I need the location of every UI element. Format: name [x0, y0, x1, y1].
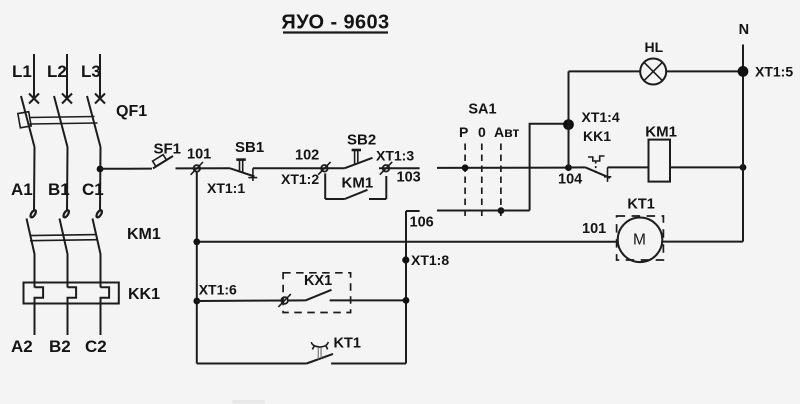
title ЯУО-9603: [281, 12, 389, 34]
svg-text:SB2: SB2: [347, 132, 376, 149]
svg-text:L2: L2: [47, 62, 67, 81]
pushbutton SB1 stop: [230, 160, 257, 181]
selector switch SA1 dashed poles: [465, 144, 501, 221]
svg-text:KM1: KM1: [342, 175, 374, 192]
svg-text:A1: A1: [11, 180, 33, 199]
contact KX1: [288, 290, 332, 301]
svg-text:HL: HL: [645, 39, 664, 55]
svg-text:KK1: KK1: [128, 286, 160, 303]
svg-text:L1: L1: [12, 62, 32, 81]
svg-text:XT1:5: XT1:5: [755, 64, 793, 80]
wire KX1 to 106: [330, 299, 406, 301]
wire XT1:6 row left: [197, 300, 285, 303]
contact KM1 auxiliary seal-in branch: [325, 173, 386, 199]
svg-text:XT1:8: XT1:8: [411, 252, 449, 268]
svg-text:KK1: KK1: [583, 128, 611, 144]
breaker QF1 fixed contact x L1: [29, 94, 39, 104]
node SF1 tap on phase C: [97, 166, 104, 173]
pushbutton SB2 start: [345, 150, 373, 168]
svg-text:SF1: SF1: [154, 141, 182, 158]
wire XT1:4 riser to lamp corner: [568, 71, 570, 167]
faint watermark smudge: [232, 400, 265, 404]
wire 106 SA1 row: [437, 210, 530, 212]
node coil to N junction: [740, 164, 747, 171]
wire phase A KM1 to KK1: [34, 254, 36, 288]
contactor KM1 pole B blade: [60, 219, 68, 255]
wire KK1 to KM1 coil: [608, 166, 649, 168]
svg-text:QF1: QF1: [116, 103, 147, 120]
time contact KT1: [307, 342, 333, 364]
svg-text:104: 104: [558, 172, 582, 188]
svg-text:XT1:3: XT1:3: [376, 148, 414, 164]
node 101 KX1 row junction: [193, 298, 200, 305]
breaker QF1 fixed contact x L2: [62, 94, 72, 104]
wire 103 to SA1: [437, 167, 569, 169]
KK1 heater element C: [101, 287, 110, 335]
wire SB2 to XT1:3: [379, 167, 420, 169]
node SA1 Авт contact: [498, 207, 505, 214]
wire phase B QF1 to KM1: [66, 147, 69, 210]
circuit breaker QF1 pole B blade: [54, 96, 68, 147]
contactor KM1 linkage bar: [30, 235, 97, 241]
contactor KM1 pole C contact circle: [95, 209, 102, 218]
wire SF1 to XT1:1: [176, 167, 231, 169]
wire 106 stub from corner: [406, 210, 420, 212]
wire phase C QF1 to KM1: [99, 147, 102, 210]
svg-text:ЯУО - 9603: ЯУО - 9603: [281, 12, 389, 34]
svg-text:B2: B2: [49, 337, 71, 356]
terminal XT1:6: [278, 294, 290, 307]
wire L2 input: [66, 54, 68, 98]
svg-text:101: 101: [582, 221, 606, 237]
KK1 heater element A: [35, 287, 44, 335]
terminal XT1:4: [563, 119, 574, 130]
wire L1 input: [33, 54, 35, 98]
svg-text:102: 102: [295, 148, 319, 164]
wire KT1 contact row left: [197, 363, 307, 365]
wire KM1 coil to N: [670, 166, 743, 168]
wire 106 vertical: [405, 211, 407, 364]
breaker QF1 fixed contact x L3: [95, 94, 105, 104]
svg-text:KX1: KX1: [304, 273, 332, 289]
lamp HL: [640, 59, 666, 85]
wire HL to XT1:5: [666, 70, 743, 72]
wire lamp branch horizontal: [569, 70, 641, 72]
timer motor KT1: [617, 216, 664, 262]
photo relay box KX1 dashed: [283, 273, 351, 313]
svg-text:C1: C1: [82, 180, 104, 199]
svg-text:L3: L3: [81, 62, 101, 81]
node 104 junction: [565, 164, 572, 171]
node 101 motor row junction: [193, 238, 200, 245]
svg-text:SB1: SB1: [235, 139, 264, 156]
svg-text:SA1: SA1: [468, 101, 496, 117]
KK1 heater element B: [68, 287, 77, 335]
svg-text:N: N: [739, 22, 749, 38]
terminal XT1:1: [191, 162, 203, 175]
wire phase C KM1 to KK1: [100, 254, 102, 288]
wire phase A QF1 to KM1: [33, 147, 36, 210]
contactor KM1 pole A blade: [27, 219, 35, 255]
wire 101 motor row: [197, 241, 618, 243]
wire phase B KM1 to KK1: [67, 254, 69, 288]
wire SA1 to XT1:4 riser: [530, 124, 569, 211]
svg-text:106: 106: [410, 215, 434, 231]
svg-text:A2: A2: [11, 337, 33, 356]
wire L3 input: [99, 54, 101, 98]
svg-text:KM1: KM1: [645, 124, 677, 141]
svg-text:C2: C2: [85, 337, 107, 356]
svg-text:KT1: KT1: [627, 197, 654, 213]
svg-text:KT1: KT1: [334, 336, 361, 352]
thermal relay KK1 box: [24, 283, 119, 304]
terminal XT1:2: [318, 162, 330, 175]
svg-text:XT1:2: XT1:2: [281, 171, 319, 187]
breaker QF1 linkage bar: [18, 112, 98, 128]
contactor KM1 pole C blade: [93, 219, 101, 255]
thermal contact KK1: [569, 156, 612, 182]
svg-text:0: 0: [478, 124, 486, 140]
switch SF1: [153, 155, 173, 169]
svg-text:Авт: Авт: [494, 124, 520, 140]
svg-text:B1: B1: [48, 180, 70, 199]
wire XT1:1 branch vertical: [196, 172, 198, 364]
svg-text:XT1:1: XT1:1: [207, 180, 245, 196]
terminal XT1:3: [380, 162, 392, 175]
node KX1 row to 106 junction: [403, 297, 410, 304]
svg-text:KM1: KM1: [127, 226, 161, 243]
wire neutral N vertical: [742, 45, 744, 242]
svg-text:103: 103: [397, 170, 421, 186]
svg-text:Р: Р: [459, 124, 468, 140]
wire KT1 contact row right: [331, 363, 406, 365]
circuit breaker QF1 pole A blade: [21, 96, 35, 147]
contactor KM1 pole B contact circle: [62, 209, 69, 218]
contactor KM1 pole A contact circle: [29, 209, 36, 218]
svg-text:M: M: [633, 231, 646, 248]
wire SB1 to XT1:2: [253, 167, 345, 169]
terminal XT1:5: [738, 66, 749, 77]
terminal XT1:8: [402, 256, 409, 263]
wire phase C tap to SF1: [100, 168, 152, 170]
node SA1 P contact: [462, 164, 469, 171]
svg-text:XT1:4: XT1:4: [582, 109, 620, 125]
svg-text:XT1:6: XT1:6: [199, 282, 237, 298]
wire motor to N: [662, 241, 743, 243]
svg-text:101: 101: [187, 147, 211, 163]
coil KM1: [649, 140, 671, 182]
circuit breaker QF1 pole C blade: [87, 96, 101, 147]
